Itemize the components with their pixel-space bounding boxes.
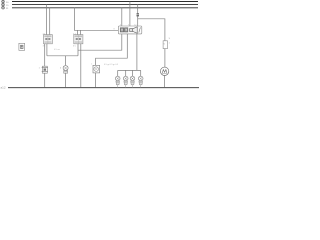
terminal 30 [2,0,10,4]
radio unit R [114,24,142,34]
lamp drop 1 [117,70,119,76]
wire radio bottom pin b to motor M2 [96,34,128,65]
bus line 15 (top rail 2) [12,4,198,6]
lamp L4 [130,76,135,87]
wire M1 to ground bus [164,76,166,88]
wire switch E1 to ground bus [44,73,46,87]
wire relay J1 pin to junction bracket [46,44,48,56]
bus line X (top rail 3) [12,7,198,9]
lamp drop 2 [125,70,127,76]
wire stub to relay J2 pin2 [80,30,82,34]
motor M2 box [91,63,100,73]
terminal 15 [2,3,10,7]
svg-text:2 1: 2 1 [43,33,46,35]
wire relay J2 pin down to bracket [77,44,79,56]
wire lamp L1 to ground bus [65,73,67,87]
horn/motor M1 [160,67,168,75]
svg-text:0.5 gr 0.5 gr 0.5: 0.5 gr 0.5 gr 0.5 [104,64,119,66]
inline connector T2 on wire [136,13,139,16]
relay J1 [43,33,53,47]
svg-text:3 5: 3 5 [73,45,76,47]
svg-text:0.5 sw: 0.5 sw [54,49,60,51]
wire stub to relay J2 pin1 [77,30,79,34]
switch E1 [39,66,48,73]
wire bracket to lamp L1 [65,56,67,66]
label box (grid ref) [19,43,25,50]
wire relay J2 pin2 to ground bus [80,44,82,88]
wire relay J2 branch to radio bottom pin a [78,34,122,50]
svg-text:a12: a12 [1,85,6,89]
fuse S1 [163,38,171,49]
wire bus3 to radio top pin a [121,8,123,26]
bus line 30 (top rail 1) [12,1,198,3]
wire fuse to horn/motor M1 [164,49,166,68]
wire bus3 to relay J1 pin2 [49,8,51,35]
lamp drop 3 [132,70,134,76]
lamp L5 [138,76,143,87]
wire radio bottom pin c to lamp bar [136,34,138,71]
wire bus2 to relay J1 pin1 [45,5,47,35]
lamp L3 [123,76,128,87]
wire relay J1 to switch E1 [44,44,46,66]
lamp distribution bar [118,69,141,71]
svg-text:2 1: 2 1 [73,33,76,35]
lamp L2 [115,76,120,87]
wire bus2 to radio top pin c [137,5,139,26]
relay J2 [73,33,83,47]
lamp L1 [60,66,68,74]
wire motor M2 to ground bus [95,73,97,88]
terminal X [2,6,10,10]
wire bus1 to radio top pin b [129,2,131,27]
ground bus (bottom rail 31) [8,87,199,89]
bracket wire joining J1 and J2 [47,55,78,57]
wire branch to fuse S1 [138,19,165,41]
wire bus3 down then right to radio left pin [74,8,118,31]
lamp drop 4 [140,70,142,76]
